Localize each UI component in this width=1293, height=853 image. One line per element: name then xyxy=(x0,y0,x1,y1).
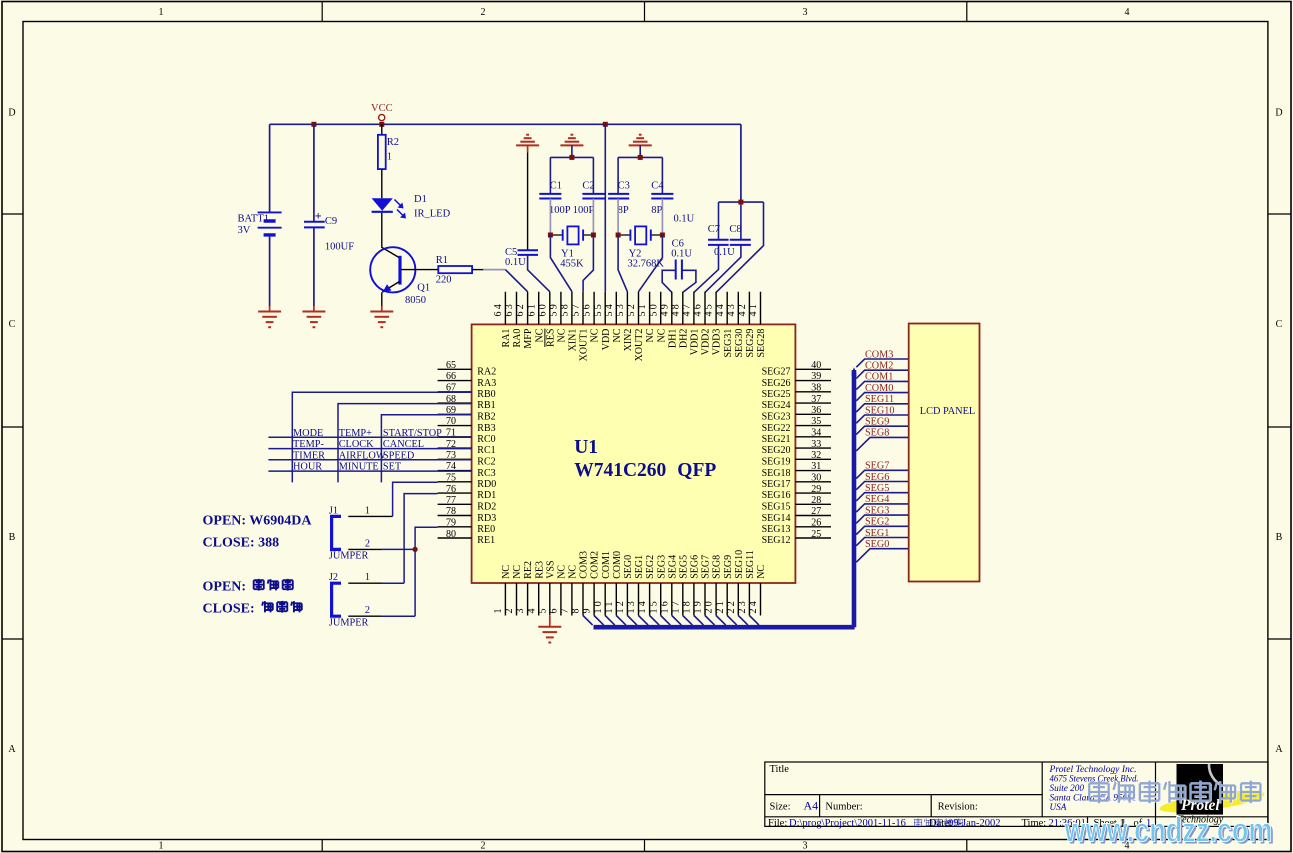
diode D1 IR_LED xyxy=(372,198,406,218)
svg-text:SEG0: SEG0 xyxy=(865,539,889,550)
svg-text:75: 75 xyxy=(446,473,456,484)
wire row RC2 xyxy=(268,459,471,461)
node junction rail-R2 xyxy=(379,122,384,127)
power port VCC xyxy=(371,103,393,121)
wire Y2 to pin52 XOUT2 xyxy=(639,235,663,292)
svg-text:0.1U: 0.1U xyxy=(505,257,526,268)
svg-text:+: + xyxy=(315,209,322,223)
svg-text:39: 39 xyxy=(811,371,821,382)
svg-text:CLOSE:: CLOSE: xyxy=(203,601,255,616)
svg-text:SEG21: SEG21 xyxy=(762,434,791,445)
svg-text:49: 49 xyxy=(659,302,670,316)
ground under Q1 xyxy=(370,306,393,327)
svg-text:8P: 8P xyxy=(651,205,662,216)
svg-text:TEMP+: TEMP+ xyxy=(339,428,372,439)
svg-text:SET: SET xyxy=(383,462,402,473)
wire row RC1 xyxy=(268,448,471,450)
svg-text:CLOSE: 388: CLOSE: 388 xyxy=(203,536,280,551)
svg-text:78: 78 xyxy=(446,506,456,517)
svg-text:55: 55 xyxy=(593,302,604,316)
svg-text:SEG18: SEG18 xyxy=(762,468,791,479)
svg-text:File:: File: xyxy=(768,818,787,829)
svg-text:SEG28: SEG28 xyxy=(756,329,767,358)
pin names left xyxy=(477,367,496,547)
svg-text:30: 30 xyxy=(811,473,821,484)
node junction C7C8 xyxy=(738,200,743,205)
wire J1 pin1 to RD0 xyxy=(348,515,392,517)
svg-text:NC: NC xyxy=(656,328,667,342)
note OPEN W6904DA xyxy=(203,514,313,551)
svg-text:NC: NC xyxy=(568,565,579,579)
node junction gnd-Y1 xyxy=(569,155,574,160)
wire C8 to pin46 VDD2 xyxy=(705,245,741,292)
svg-text:U1: U1 xyxy=(574,437,598,458)
svg-text:41: 41 xyxy=(748,302,759,316)
svg-text:SEG25: SEG25 xyxy=(762,389,791,400)
svg-text:MINUTE: MINUTE xyxy=(339,462,379,473)
svg-text:Title: Title xyxy=(770,764,790,775)
capacitor C6 0.1U xyxy=(676,260,682,280)
wire rail to R2 xyxy=(381,124,383,135)
wire Y1 to pin58 XIN1 xyxy=(550,235,572,292)
svg-text:SEG8: SEG8 xyxy=(865,428,889,439)
svg-text:SEG11: SEG11 xyxy=(745,550,756,579)
svg-text:XIN2: XIN2 xyxy=(623,329,634,352)
svg-text:SEG6: SEG6 xyxy=(690,555,701,579)
svg-text:63: 63 xyxy=(504,302,515,316)
svg-text:220: 220 xyxy=(436,275,452,286)
svg-text:0.1U: 0.1U xyxy=(671,248,692,259)
capacitor C3 8P xyxy=(608,194,629,199)
svg-text:SEG20: SEG20 xyxy=(762,445,791,456)
wire row RC0 xyxy=(268,436,471,438)
svg-text:42: 42 xyxy=(737,302,748,316)
wire Q1 emitter to ground xyxy=(381,292,383,306)
svg-text:52: 52 xyxy=(626,302,637,316)
capacitor C9 100UF xyxy=(304,222,325,228)
wire C9 branch xyxy=(313,124,315,306)
svg-text:VSS: VSS xyxy=(545,560,556,578)
svg-text:Revision:: Revision: xyxy=(938,802,978,813)
svg-text:44: 44 xyxy=(715,302,726,316)
svg-text:12: 12 xyxy=(615,599,626,613)
svg-text:RE2: RE2 xyxy=(523,561,534,579)
svg-text:COM1: COM1 xyxy=(601,551,612,579)
svg-text:RB1: RB1 xyxy=(477,400,495,411)
svg-text:SEG3: SEG3 xyxy=(656,555,667,579)
svg-text:19: 19 xyxy=(693,599,704,613)
wire C7 to pin47 VDD1 xyxy=(694,245,719,292)
svg-text:SEG7: SEG7 xyxy=(701,555,712,579)
svg-text:OPEN: W6904DA: OPEN: W6904DA xyxy=(203,514,313,529)
svg-text:SEG8: SEG8 xyxy=(712,555,723,579)
svg-text:SPEED: SPEED xyxy=(383,450,415,461)
capacitor C5 0.1U xyxy=(518,250,539,255)
wire C3-C4 top link xyxy=(618,145,662,193)
svg-text:60: 60 xyxy=(537,302,548,316)
svg-text:46: 46 xyxy=(693,302,704,316)
svg-text:CLOCK: CLOCK xyxy=(339,439,374,450)
node junction J1pin2-RE0 xyxy=(413,547,418,552)
pin names bottom xyxy=(501,550,767,579)
svg-text:SEG24: SEG24 xyxy=(762,400,791,411)
wire C1 to Y1 left xyxy=(549,199,551,235)
svg-text:J1: J1 xyxy=(329,505,338,516)
resistor R2 value 1 xyxy=(378,135,386,169)
svg-text:RES: RES xyxy=(545,329,556,347)
svg-text:56: 56 xyxy=(582,302,593,316)
wire C1-C2 top link xyxy=(550,145,593,193)
Protel address xyxy=(1048,764,1138,812)
svg-text:NC: NC xyxy=(612,328,623,342)
svg-text:VDD: VDD xyxy=(601,329,612,351)
svg-text:J2: J2 xyxy=(329,572,338,583)
svg-text:NC: NC xyxy=(534,328,545,342)
svg-text:27: 27 xyxy=(811,506,821,517)
title block lines xyxy=(765,762,1268,826)
svg-text:NC: NC xyxy=(557,328,568,342)
svg-text:23: 23 xyxy=(737,599,748,613)
svg-text:RC1: RC1 xyxy=(477,445,495,456)
svg-text:53: 53 xyxy=(615,302,626,316)
svg-text:VDD1: VDD1 xyxy=(690,329,701,356)
wire C2 to Y1 right xyxy=(592,199,594,235)
svg-text:6: 6 xyxy=(548,606,559,613)
wire C3 to Y2 left xyxy=(617,199,619,235)
svg-text:RD3: RD3 xyxy=(477,513,496,524)
svg-text:64: 64 xyxy=(493,302,504,316)
svg-text:3V: 3V xyxy=(238,225,251,236)
svg-text:8: 8 xyxy=(571,606,582,613)
svg-text:8P: 8P xyxy=(618,205,629,216)
svg-text:11: 11 xyxy=(604,599,615,613)
wire C5 to pin60 RES xyxy=(528,255,550,292)
svg-text:76: 76 xyxy=(446,484,456,495)
pin numbers top 64-41 xyxy=(493,302,759,316)
svg-text:NC: NC xyxy=(501,565,512,579)
wire rail to pin55 VDD xyxy=(604,124,606,291)
bus vertical thick xyxy=(852,370,857,627)
wire C4 to Y2 right xyxy=(661,199,663,235)
svg-text:RC3: RC3 xyxy=(477,468,495,479)
svg-text:HOUR: HOUR xyxy=(293,462,322,473)
watermark www.cndzz.com xyxy=(1064,812,1275,852)
svg-text:10: 10 xyxy=(593,599,604,613)
node junction Y2 left xyxy=(616,233,621,238)
wire J2 pin2 to RE0 xyxy=(348,615,381,617)
svg-text:36: 36 xyxy=(811,405,821,416)
svg-text:59: 59 xyxy=(548,302,559,316)
svg-text:25: 25 xyxy=(811,529,821,540)
svg-text:100P: 100P xyxy=(549,205,571,216)
pin numbers bottom 1-24 xyxy=(493,599,759,613)
svg-text:Size:: Size: xyxy=(770,802,791,813)
pin stubs left pins 65-80 xyxy=(438,369,472,538)
svg-text:9: 9 xyxy=(582,606,593,613)
wire column RB1 xyxy=(338,404,472,483)
svg-text:45: 45 xyxy=(704,302,715,316)
svg-text:31: 31 xyxy=(811,461,821,472)
svg-text:2: 2 xyxy=(481,840,486,851)
svg-text:SEG19: SEG19 xyxy=(762,457,791,468)
svg-text:34: 34 xyxy=(811,428,821,439)
Protel logo xyxy=(1177,764,1224,826)
svg-text:29: 29 xyxy=(811,484,821,495)
wire Q1 base to R1 xyxy=(402,269,439,271)
svg-text:100UF: 100UF xyxy=(325,241,354,252)
svg-text:NC: NC xyxy=(512,565,523,579)
crystal Y1 455K xyxy=(550,226,593,244)
wire BATT1 to rail xyxy=(269,124,271,212)
wires IC bottom pins 8-23 to bus xyxy=(583,616,759,626)
svg-text:RE1: RE1 xyxy=(477,535,495,546)
title block texts xyxy=(768,764,1143,829)
svg-text:COM0: COM0 xyxy=(612,551,623,579)
svg-text:R2: R2 xyxy=(387,137,399,148)
ground above Y2 group xyxy=(629,135,652,146)
svg-text:37: 37 xyxy=(811,394,821,405)
wire BATT1 to ground xyxy=(269,237,271,307)
svg-text:D: D xyxy=(1275,108,1282,119)
svg-text:TEMP-: TEMP- xyxy=(293,439,324,450)
wires bus to LCD group A xyxy=(856,359,908,451)
svg-text:A: A xyxy=(1275,744,1283,755)
svg-text:SEG26: SEG26 xyxy=(762,378,791,389)
svg-text:SEG4: SEG4 xyxy=(667,555,678,579)
svg-text:SEG11: SEG11 xyxy=(865,394,894,405)
svg-text:C: C xyxy=(1276,319,1283,330)
svg-text:SEG10: SEG10 xyxy=(865,405,894,416)
wire column RB0 xyxy=(292,392,471,482)
svg-text:SEG10: SEG10 xyxy=(734,550,745,579)
battery BATT1 3V xyxy=(258,212,282,235)
svg-text:NC: NC xyxy=(557,565,568,579)
svg-text:NC: NC xyxy=(645,328,656,342)
svg-text:70: 70 xyxy=(446,416,456,427)
wire Y1 to pin57 XOUT1 xyxy=(583,235,593,292)
svg-text:0.1U: 0.1U xyxy=(674,214,695,225)
svg-text:Protel Technology Inc.: Protel Technology Inc. xyxy=(1048,764,1136,774)
svg-text:1: 1 xyxy=(159,7,164,18)
svg-text:RB0: RB0 xyxy=(477,389,495,400)
svg-text:SEG5: SEG5 xyxy=(865,483,889,494)
svg-text:SEG4: SEG4 xyxy=(865,494,889,505)
svg-text:B: B xyxy=(9,532,16,543)
svg-text:4: 4 xyxy=(1125,7,1130,18)
svg-text:R1: R1 xyxy=(436,255,448,266)
svg-text:21: 21 xyxy=(715,599,726,613)
svg-text:TIMER: TIMER xyxy=(293,450,325,461)
svg-text:COM3: COM3 xyxy=(579,551,590,579)
crystal Y2 32.768K xyxy=(618,226,662,244)
svg-text:16: 16 xyxy=(659,599,670,613)
net labels COM3-SEG8 xyxy=(865,349,894,438)
svg-text:17: 17 xyxy=(670,599,681,613)
svg-text:79: 79 xyxy=(446,518,456,529)
svg-text:14: 14 xyxy=(637,599,648,613)
pin stubs top pins 64-41 xyxy=(505,292,760,325)
svg-text:NC: NC xyxy=(756,565,767,579)
svg-text:COM0: COM0 xyxy=(865,383,893,394)
svg-text:8050: 8050 xyxy=(405,295,426,306)
svg-text:SEG16: SEG16 xyxy=(762,490,791,501)
svg-text:A4: A4 xyxy=(804,799,819,813)
watermark CJK characters xyxy=(1089,781,1261,805)
svg-text:RA0: RA0 xyxy=(512,329,523,348)
svg-text:1: 1 xyxy=(159,840,164,851)
svg-text:Time:: Time: xyxy=(1022,818,1047,829)
jumper J2 xyxy=(332,583,341,616)
LCD PANEL box xyxy=(909,324,980,582)
svg-text:7: 7 xyxy=(560,606,571,613)
svg-text:3: 3 xyxy=(803,7,808,18)
svg-text:D: D xyxy=(8,108,15,119)
svg-text:RB2: RB2 xyxy=(477,412,495,423)
svg-text:VCC: VCC xyxy=(371,103,393,114)
svg-text:26: 26 xyxy=(811,518,821,529)
svg-text:VDD2: VDD2 xyxy=(701,329,712,356)
svg-text:22: 22 xyxy=(726,599,737,613)
svg-text:RB3: RB3 xyxy=(477,423,495,434)
svg-text:DH2: DH2 xyxy=(678,329,689,348)
resistor R1 value 220 xyxy=(438,266,472,273)
wire R2 to D1 xyxy=(381,169,383,198)
svg-text:SEG5: SEG5 xyxy=(678,555,689,579)
svg-text:D1: D1 xyxy=(414,194,427,205)
svg-text:XOUT2: XOUT2 xyxy=(634,329,645,362)
svg-text:RC0: RC0 xyxy=(477,434,495,445)
svg-text:62: 62 xyxy=(515,302,526,316)
node junction Y1 left xyxy=(548,233,553,238)
transistor Q1 8050 xyxy=(370,247,415,292)
svg-text:4: 4 xyxy=(526,606,537,613)
svg-text:SEG23: SEG23 xyxy=(762,412,791,423)
svg-text:SEG2: SEG2 xyxy=(865,517,889,528)
wire rail corner down to C7C8 xyxy=(740,124,742,202)
svg-text:80: 80 xyxy=(446,529,456,540)
svg-text:50: 50 xyxy=(648,302,659,316)
svg-text:2: 2 xyxy=(365,605,370,616)
capacitor C8 xyxy=(740,205,742,240)
svg-text:RD1: RD1 xyxy=(477,490,496,501)
svg-text:SEG13: SEG13 xyxy=(762,524,791,535)
svg-text:JUMPER: JUMPER xyxy=(329,617,369,628)
svg-text:40: 40 xyxy=(811,360,821,371)
svg-text:77: 77 xyxy=(446,495,456,506)
svg-text:33: 33 xyxy=(811,439,821,450)
svg-text:RA1: RA1 xyxy=(501,329,512,348)
svg-text:SEG1: SEG1 xyxy=(634,555,645,579)
svg-text:C4: C4 xyxy=(651,180,664,191)
key labels matrix xyxy=(293,428,442,473)
svg-text:DH1: DH1 xyxy=(667,329,678,348)
svg-text:RD0: RD0 xyxy=(477,479,496,490)
svg-text:1: 1 xyxy=(493,606,504,613)
ground under C9 xyxy=(302,306,325,327)
svg-text:2: 2 xyxy=(481,7,486,18)
node junction Y1 right xyxy=(591,233,596,238)
svg-text:RE0: RE0 xyxy=(477,524,495,535)
svg-text:1: 1 xyxy=(365,572,370,583)
svg-text:COM1: COM1 xyxy=(865,372,893,383)
svg-text:SEG30: SEG30 xyxy=(734,329,745,358)
watermark yellow swoosh xyxy=(1158,786,1265,817)
svg-text:SEG1: SEG1 xyxy=(865,528,889,539)
svg-text:SEG3: SEG3 xyxy=(865,505,889,516)
node junction gnd-Y2 xyxy=(638,155,643,160)
svg-text:61: 61 xyxy=(526,302,537,316)
wire row RC3 xyxy=(268,470,471,472)
svg-text:15: 15 xyxy=(648,599,659,613)
svg-text:RD2: RD2 xyxy=(477,502,496,513)
svg-text:54: 54 xyxy=(604,302,615,316)
jumper J1 xyxy=(332,516,341,549)
svg-text:Suite 200: Suite 200 xyxy=(1050,783,1085,793)
svg-text:1: 1 xyxy=(387,152,392,163)
pin numbers left 65-80 xyxy=(446,360,456,540)
svg-text:W741C260: W741C260 xyxy=(574,460,666,481)
ground above Y1 group xyxy=(560,135,583,146)
CJK in file path xyxy=(914,818,962,827)
svg-text:SEG2: SEG2 xyxy=(645,555,656,579)
capacitor C4 8P xyxy=(651,194,673,199)
svg-text:24: 24 xyxy=(748,599,759,613)
wire J2 pin1 to RD1 xyxy=(348,582,382,584)
svg-text:SEG31: SEG31 xyxy=(723,329,734,358)
svg-text:C7: C7 xyxy=(708,224,720,235)
svg-text:SEG9: SEG9 xyxy=(723,555,734,579)
svg-text:C1: C1 xyxy=(550,180,562,191)
wire column RB2 xyxy=(381,415,471,483)
svg-text:66: 66 xyxy=(446,371,456,382)
svg-text:COM2: COM2 xyxy=(590,551,601,579)
svg-text:SEG12: SEG12 xyxy=(762,535,791,546)
svg-text:COM2: COM2 xyxy=(865,361,893,372)
svg-text:MODE: MODE xyxy=(293,428,323,439)
svg-text:0.1U: 0.1U xyxy=(714,247,735,258)
svg-text:www.cndzz.com: www.cndzz.com xyxy=(1064,812,1273,850)
svg-text:Q1: Q1 xyxy=(417,282,430,293)
svg-text:COM3: COM3 xyxy=(865,349,893,360)
svg-text:OPEN:: OPEN: xyxy=(203,579,247,594)
wire D1 to Q1 collector xyxy=(382,213,399,258)
svg-text:B: B xyxy=(1276,532,1283,543)
svg-text:455K: 455K xyxy=(560,258,584,269)
svg-text:SEG29: SEG29 xyxy=(745,329,756,358)
svg-text:43: 43 xyxy=(726,302,737,316)
svg-text:35: 35 xyxy=(811,416,821,427)
pin names top xyxy=(501,328,767,361)
bus horizontal thick xyxy=(594,625,855,630)
svg-text:C9: C9 xyxy=(325,216,337,227)
svg-text:65: 65 xyxy=(446,360,456,371)
pin names right xyxy=(762,367,791,547)
wires bus to LCD group B xyxy=(856,470,908,562)
svg-text:1: 1 xyxy=(365,505,370,516)
wire ground to C5 xyxy=(527,152,529,250)
svg-text:D:\prog\Project\2001-11-16: D:\prog\Project\2001-11-16 xyxy=(789,818,906,829)
wire VCC rail xyxy=(270,123,741,125)
node junction rail-C9 xyxy=(311,122,316,127)
op-amp U1 W741C260 QFP body xyxy=(472,324,796,583)
svg-text:SEG27: SEG27 xyxy=(762,367,791,378)
wire C7-C8 top link xyxy=(719,201,764,203)
svg-text:5: 5 xyxy=(537,606,548,613)
ground under BATT1 xyxy=(258,306,281,327)
svg-text:SEG9: SEG9 xyxy=(865,417,889,428)
svg-text:48: 48 xyxy=(670,302,681,316)
pin stubs bottom pins 1-24 xyxy=(505,583,760,616)
